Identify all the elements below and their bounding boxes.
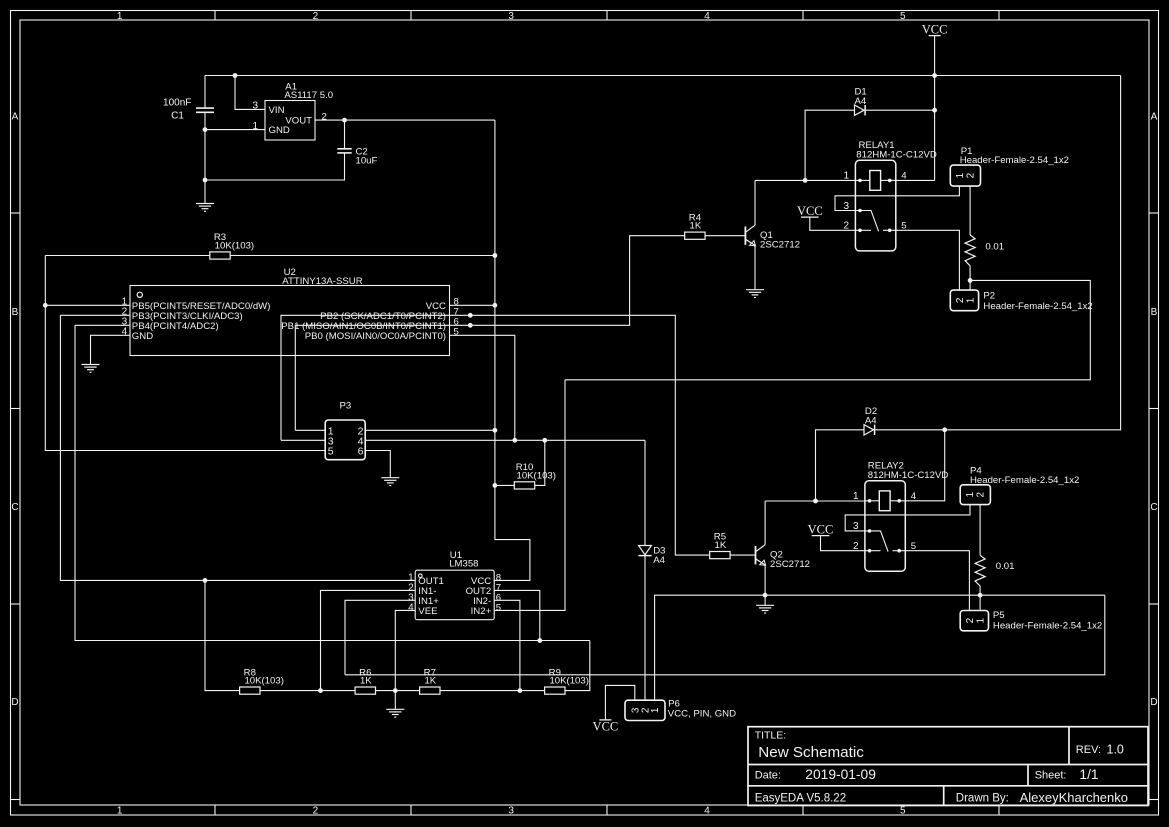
svg-text:D: D [11,697,18,708]
VCC power symbol (relay2) [808,523,834,537]
svg-text:Sheet:: Sheet: [1035,770,1067,782]
svg-text:1K: 1K [424,676,436,687]
connector P4 box [960,485,990,505]
wire relay2 pin2 to VCC [821,536,865,551]
svg-text:Date:: Date: [755,770,781,782]
svg-text:5: 5 [900,806,906,817]
U1 labels [449,550,478,570]
svg-text:P3: P3 [340,401,352,412]
U1 pin1 indicator circle [419,574,423,578]
svg-text:1: 1 [117,806,123,817]
svg-text:100nF: 100nF [163,98,191,109]
svg-text:D: D [1150,697,1157,708]
P5 labels [993,610,1102,631]
wire R8 to R6 [260,690,355,692]
RELAY2 coil [865,491,905,511]
wire net PB2 to R5 [281,315,709,555]
VCC power symbol (top) [922,23,948,37]
D3 labels [653,545,665,566]
svg-text:New Schematic: New Schematic [758,744,864,761]
svg-text:1: 1 [965,491,976,497]
resistor R7 body [420,687,440,694]
wire P3 pin3 [281,439,325,441]
wire relay1 pin3 route [835,187,959,211]
wire U2 pin1 PB5 [45,304,130,306]
wire pin4row to D3 [644,440,646,545]
wire relay2 pin1 row [765,500,865,502]
junction R10 right on pin4 row [542,438,547,443]
wire D1 branch [805,110,854,180]
svg-text:0.01: 0.01 [985,242,1004,253]
U1 pin names [418,576,491,617]
R9 labels [549,667,589,686]
wire sense ch1 to IN2+ [565,280,1090,379]
junction VOUT/C2 [342,118,347,123]
junction Q2 emitter/GND rail [763,593,768,598]
svg-text:A: A [1151,112,1158,123]
svg-text:2019-01-09: 2019-01-09 [805,767,876,782]
svg-text:LM358: LM358 [449,559,478,570]
svg-text:Header-Female-2.54_1x2: Header-Female-2.54_1x2 [960,155,1069,166]
VCC power symbol (P6) [593,720,619,734]
wire C2 bottom [205,153,345,180]
wire R4 right to Q1 base [705,235,745,237]
RELAY2 switch [865,529,905,552]
wire R3 right [230,255,495,257]
R10 labels [516,462,556,481]
R4 labels [689,212,702,231]
resistor R8 body [240,687,260,694]
op-amp U1 box [415,570,494,620]
junction OUT1/R8 [203,578,208,583]
svg-text:TITLE:: TITLE: [755,730,787,742]
wire A1 VIN pin 3 [235,76,265,110]
wire P3 pin4 row [365,439,645,441]
svg-text:10K(103): 10K(103) [516,470,555,481]
svg-text:2SC2712: 2SC2712 [770,559,810,570]
junction sense ch2 [978,593,983,598]
wire relay1 pin5 to P2 [896,230,960,290]
junction VEE/ground rail [393,688,398,693]
wire R6 to R7 [376,690,420,692]
junction R8/IN1- [318,688,323,693]
relay RELAY1 box [855,160,895,251]
capacitor C2 plates [337,149,351,153]
svg-text:GND: GND [132,331,153,342]
wire R7 to R9 [440,690,544,692]
wire D3 cathode to P6 pin2 [644,556,646,701]
U2 pin5 name PB0 [305,331,446,342]
title block text [755,730,1128,806]
svg-text:2: 2 [965,617,976,623]
voltage regulator U A1 AS1117 box [265,101,315,141]
svg-text:5: 5 [900,11,906,22]
wire top VCC rail [205,75,1121,77]
svg-text:1.0: 1.0 [1107,743,1124,757]
connector P3 box [325,420,365,460]
junction C1/A1 GND [203,127,208,132]
junction C1/VIN on VCC rail [233,73,238,78]
svg-text:812HM-1C-C12VD: 812HM-1C-C12VD [856,150,937,161]
junction R3 right [493,253,498,258]
wire relay2 pin3 route [845,504,970,531]
diode D2 [864,425,875,435]
svg-text:1: 1 [966,297,977,303]
svg-text:AS1117 5.0: AS1117 5.0 [284,90,333,101]
svg-text:EasyEDA V5.8.22: EasyEDA V5.8.22 [755,792,846,804]
svg-text:B: B [1151,307,1158,318]
svg-text:2: 2 [322,111,327,122]
junction D2 anode branch [813,499,818,504]
RELAY1 coil [855,171,895,191]
wire C2 top [344,120,346,149]
svg-text:VCC: VCC [808,523,834,537]
svg-text:B: B [12,307,19,318]
P4 labels [970,465,1079,486]
ground (P3) [381,478,399,486]
svg-text:812HM-1C-C12VD: 812HM-1C-C12VD [868,470,949,481]
resistor R6 body [355,687,375,694]
junction D1 anode branch [803,178,808,183]
svg-text:ATTINY13A-SSUR: ATTINY13A-SSUR [282,276,362,287]
MCU U2 box [130,286,450,356]
wire R5 right to Q2 base [730,554,755,556]
svg-text:4: 4 [408,603,414,614]
svg-text:VOUT: VOUT [285,116,312,127]
ground (Q2) [756,605,774,613]
wire PB4 bus down [75,325,590,640]
svg-text:2: 2 [976,491,987,497]
svg-text:1: 1 [117,11,123,22]
svg-text:1/1: 1/1 [1079,767,1098,782]
U2 pin7 name PB2 [320,311,446,322]
connector P6 box [625,700,665,720]
svg-text:REV:: REV: [1076,744,1101,756]
svg-text:VCC, PIN, GND: VCC, PIN, GND [668,708,736,719]
svg-text:3: 3 [508,806,514,817]
svg-text:3: 3 [508,11,514,22]
svg-text:10K(103): 10K(103) [549,676,588,687]
svg-text:C: C [11,502,18,513]
A1 pin names [269,105,313,136]
junction P3 pin2 [493,428,498,433]
wire U1 IN1- from R8 node [321,590,415,690]
U2 pin6 name PB1 [281,321,446,332]
wire C1 top [204,76,206,109]
svg-text:A4: A4 [865,415,877,426]
svg-text:1: 1 [955,172,966,178]
RELAY1 labels [856,140,937,161]
diode D3 [638,546,651,556]
svg-text:0.01: 0.01 [996,561,1015,572]
wire Q2 collector [764,501,766,545]
wire U1 VEE to ground [395,610,415,709]
RELAY2 pin numbers [853,491,917,552]
svg-text:1K: 1K [690,221,702,232]
svg-text:2: 2 [966,172,977,178]
junction OUT2 node [537,638,542,643]
wire U1 IN2- [494,600,520,690]
A1 pin numbers [252,101,326,132]
junction sense ch1 [968,278,973,283]
U2 pin numbers [122,297,459,338]
wire sense ch2 long [345,595,1105,675]
wire A1 VOUT pin 2 [315,119,495,121]
title block [748,727,1148,806]
svg-text:1K: 1K [715,540,727,551]
U2 pin names [132,301,446,342]
junction D1/VCC stem [932,108,937,113]
junction U2 pin6 tip [468,323,473,328]
connector P2 box [950,290,978,311]
ground (Q1) [746,290,764,298]
wire PB5 bus to P3 pin5 [45,256,325,451]
shunt resistor 0.01 (ch1) [965,235,975,266]
wire R9 right [565,641,590,691]
A1 labels [284,81,333,101]
wire U1 OUT2 [494,590,540,640]
D1 labels [855,87,867,107]
wire Q2 emitter to ground [764,565,766,605]
R7 labels [424,667,437,686]
svg-text:VEE: VEE [418,606,437,617]
svg-text:Header-Female-2.54_1x2: Header-Female-2.54_1x2 [983,301,1092,312]
wire C1 bottom to ground [204,112,206,203]
wire relay2 pin5 to P5 [905,551,969,610]
junction D2/VCC line [942,427,947,432]
wire VCC rail right drop to D2 row [945,76,1121,430]
wire shunt2 bottom [979,586,981,610]
wire shunt1 bottom [969,266,971,290]
wire VCC stem to relay1 pin4 [934,36,936,181]
svg-text:1: 1 [976,617,987,623]
junction U2 VCC pin [493,303,498,308]
svg-text:VCC: VCC [797,204,823,218]
svg-text:C: C [1150,502,1157,513]
wire net PB1 to R4 [295,236,684,431]
resistor R5 body [710,552,730,559]
svg-text:2: 2 [313,806,319,817]
P1 labels [960,146,1069,166]
wire P6 pin3 to VCC [605,685,634,720]
wire P3 pin2 [365,429,495,431]
transistor Q2 2SC2712 [756,545,766,566]
svg-text:2: 2 [955,297,966,303]
resistor R3 body [210,252,230,259]
wire VCC net vertical [494,120,530,580]
wire A1 GND pin 1 [205,129,265,131]
svg-text:2: 2 [313,11,319,22]
svg-text:2SC2712: 2SC2712 [760,240,800,251]
wire PB3 bus down to U1 OUT1 [60,315,414,580]
wire relay1 pin4 [896,179,935,181]
junction PB0 on pin4 row [512,438,517,443]
junction U2 pin7 tip [468,313,473,318]
svg-text:10uF: 10uF [356,155,378,166]
svg-text:1: 1 [650,707,661,713]
shunt resistor 0.01 (ch2) [975,555,985,586]
svg-text:Drawn By:: Drawn By: [956,792,1009,804]
P6 labels [668,699,736,720]
wire U2 pin5 PB0 [450,335,515,440]
RELAY1 pin numbers [844,171,908,232]
junction R9 left/IN2- [518,688,523,693]
svg-text:10K(103): 10K(103) [215,240,254,251]
svg-text:5: 5 [328,445,334,457]
svg-text:6: 6 [358,445,364,457]
wire R10 left [495,484,514,486]
transistor Q1 2SC2712 [745,225,755,246]
svg-text:4: 4 [704,806,710,817]
C1 labels [163,98,191,122]
junction VCC stem on rail [932,73,937,78]
wire Q1 collector [754,180,756,225]
wire P1 pin2 stub [969,186,971,235]
junction C1/C2 bottom [203,178,208,183]
wire Q1 emitter to ground [754,245,756,289]
svg-text:Header-Female-2.54_1x2: Header-Female-2.54_1x2 [993,620,1102,631]
P3 pin digits [328,425,364,457]
resistor R10 body [514,482,534,489]
diode D1 [855,105,866,115]
wire R10 right [535,440,545,485]
wire P3 pin6 to ground [365,451,390,478]
capacitor C1 plates [196,108,214,112]
junction R10 left [493,483,498,488]
RELAY2 labels [868,460,949,481]
wire GND net P6 pin1 [655,595,1105,700]
svg-text:4: 4 [704,11,710,22]
svg-text:C1: C1 [171,111,184,122]
svg-text:A4: A4 [855,96,867,107]
svg-text:IN2+: IN2+ [471,606,492,617]
R6 labels [359,667,372,686]
wire U2 pin8 VCC [450,304,495,306]
wire U2 pin3 PB4 [75,324,130,326]
C2 labels [356,146,378,166]
svg-text:1K: 1K [360,676,372,687]
svg-text:VCC: VCC [922,23,948,37]
U2 pin1 indicator circle [137,292,142,297]
R3 labels [214,232,254,251]
R5 labels [714,532,727,551]
wire U2 pin2 PB3 [60,314,130,316]
ground (U2) [82,365,100,373]
RELAY1 switch [855,209,895,232]
shunt ch1 label [985,242,1004,253]
relay RELAY2 box [865,481,905,572]
U2 labels [282,267,362,287]
junction U2 pin1 [43,303,48,308]
resistor R4 body [685,232,705,239]
wire relay1 pin2 to VCC [810,217,856,230]
wire U1 IN2+ [494,380,565,611]
wire D2 cathode [875,429,945,431]
D2 labels [865,406,877,426]
resistor R9 body [545,687,565,694]
svg-text:5: 5 [454,327,459,338]
svg-text:VIN: VIN [269,105,285,116]
wire P4 pin2 stub [979,504,981,555]
svg-text:A: A [12,112,19,123]
svg-text:A4: A4 [653,555,665,566]
svg-text:5: 5 [496,603,501,614]
svg-text:VCC: VCC [593,720,619,734]
svg-text:4: 4 [122,327,128,338]
R8 labels [244,667,284,686]
ground (U1 rail) [386,709,404,717]
VCC power symbol (relay1) [797,204,823,218]
wire R3 left [45,255,210,257]
wire P3 pin1 [295,429,325,431]
svg-text:GND: GND [269,125,290,136]
svg-text:PB0 (MOSI/AIN0/OC0A/PCINT0): PB0 (MOSI/AIN0/OC0A/PCINT0) [305,331,446,342]
wire D2 branch [816,430,865,501]
shunt ch2 label [996,561,1015,572]
svg-text:Header-Female-2.54_1x2: Header-Female-2.54_1x2 [970,475,1079,486]
svg-text:AlexeyKharchenko: AlexeyKharchenko [1020,790,1128,805]
connector P1 box [950,165,980,186]
wire D1 cathode [865,109,935,111]
P3 label [340,401,352,412]
wire relay1 pin1 row [755,179,855,181]
wire relay2 pin4 [905,430,944,501]
wire U2 pin4 GND [91,335,131,364]
U1 pin numbers [408,573,501,614]
Q1 labels [760,230,800,251]
wire U1 IN1+ from sense [345,600,415,675]
Q2 labels [770,550,810,571]
ground (A1/C1) [196,204,214,212]
connector P5 box [960,611,988,631]
svg-text:10K(103): 10K(103) [244,676,283,687]
P2 labels [983,291,1092,312]
wire R8 left [205,580,240,690]
